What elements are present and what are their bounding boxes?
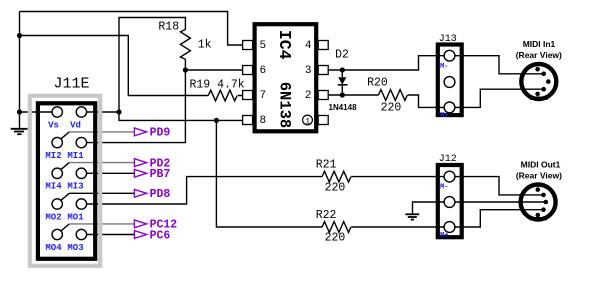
- wire: R18 bottom to IC pin 6: [185, 59, 243, 70]
- MIDI In1 DIN socket: [521, 64, 556, 99]
- wire: MO2 diagonal: [61, 193, 69, 200]
- svg-text:1: 1: [305, 116, 310, 126]
- resistor R18 1k vertical: [180, 30, 190, 60]
- svg-text:M-: M-: [440, 63, 448, 71]
- svg-text:M-: M-: [440, 184, 448, 192]
- svg-text:3: 3: [305, 65, 312, 77]
- svg-text:6N138: 6N138: [275, 82, 293, 129]
- svg-text:MO3: MO3: [67, 243, 83, 253]
- wire: Vs pin to ground rail: [20, 111, 53, 113]
- J12 pin circles: [444, 171, 455, 232]
- wire: MI2 diagonal: [61, 132, 69, 139]
- resistor R22 220: [322, 222, 351, 233]
- svg-text:MI4: MI4: [45, 182, 62, 192]
- wire: rail to R19 and IC pin 7: [20, 36, 244, 96]
- svg-text:MO2: MO2: [45, 212, 61, 222]
- wire: riser Vd up to R18 feed: [119, 18, 185, 113]
- wire: MO3 to PC6: [87, 234, 135, 236]
- wire: gray net PD2: [69, 162, 134, 164]
- svg-text:J12: J12: [439, 154, 457, 165]
- svg-text:PB7: PB7: [150, 168, 171, 181]
- wire: ground rail vertical left: [19, 12, 21, 129]
- wire: MO1 up to R21: [87, 177, 323, 204]
- svg-text:IC4: IC4: [275, 30, 294, 60]
- svg-text:R21: R21: [316, 159, 337, 172]
- svg-text:MO4: MO4: [45, 243, 62, 253]
- svg-text:220: 220: [325, 182, 346, 195]
- svg-text:(Rear View): (Rear View): [516, 50, 562, 60]
- junction: rail/Vs: [17, 109, 22, 114]
- wire: VCC top wire to IC pin 5: [20, 12, 244, 46]
- wire: gray net PD9: [69, 131, 134, 133]
- wire: R21 to J12 M-: [351, 176, 444, 178]
- net flag PD9: [134, 128, 146, 136]
- svg-text:R20: R20: [367, 77, 388, 90]
- wire: R22 to J12 M+: [351, 226, 444, 228]
- svg-text:MI1: MI1: [67, 151, 84, 161]
- connector J11E body: [38, 103, 95, 258]
- wire: Vd jog down to IC pin 8: [119, 112, 243, 120]
- svg-text:4: 4: [305, 40, 312, 52]
- svg-text:2: 2: [305, 90, 312, 102]
- wire: R22 feed from pin8 net: [216, 120, 322, 227]
- svg-text:220: 220: [325, 232, 346, 245]
- J11E pin circles: [52, 107, 87, 240]
- resistor R19 4.7k: [208, 90, 237, 101]
- IC4 pin stubs: [243, 41, 329, 125]
- svg-text:D2: D2: [335, 49, 349, 62]
- net flag PC12: [134, 220, 146, 228]
- wire: MI3 to PB7: [87, 172, 135, 174]
- svg-text:MI3: MI3: [67, 182, 83, 192]
- MIDI Out1 DIN socket: [521, 185, 556, 220]
- wire: MI4 diagonal: [61, 163, 69, 170]
- wire: Vd pin to riser: [87, 111, 119, 113]
- diode D2 1N4148: [341, 70, 343, 95]
- J13 pin circles: [444, 50, 455, 113]
- junction: pin6/R18/MI1: [183, 67, 188, 72]
- svg-text:R18: R18: [158, 20, 179, 33]
- svg-text:PD8: PD8: [150, 188, 171, 201]
- svg-text:MI2: MI2: [45, 151, 61, 161]
- svg-text:J13: J13: [439, 34, 457, 45]
- net flag PD8: [134, 189, 146, 197]
- svg-text:M+: M+: [440, 112, 448, 120]
- junction: pin8/R22: [214, 118, 219, 123]
- ground symbol at J12: [405, 214, 419, 219]
- wire: IC pin 3 to J13 M-: [328, 56, 444, 70]
- ground symbol left: [11, 129, 28, 134]
- net flag PC6: [134, 231, 146, 239]
- wire: J12 mid to ground: [413, 202, 445, 214]
- junction: Vd riser: [116, 109, 121, 114]
- svg-text:R22: R22: [316, 209, 337, 222]
- svg-text:PC6: PC6: [150, 229, 171, 242]
- junction: D2 bottom: [340, 92, 345, 97]
- wire: MO2 to PD8: [69, 192, 134, 194]
- wire: gray net PC12: [69, 223, 134, 225]
- resistor R20 220: [379, 90, 408, 101]
- svg-text:(Rear View): (Rear View): [516, 170, 562, 180]
- svg-text:6: 6: [260, 65, 267, 77]
- wire: J13 M- to MIDI In: [455, 56, 542, 74]
- svg-text:PD9: PD9: [150, 127, 171, 140]
- svg-text:7: 7: [260, 90, 267, 102]
- IC4 pin 1 circled: [303, 115, 313, 125]
- svg-text:5: 5: [260, 40, 267, 52]
- svg-text:MIDI Out1: MIDI Out1: [521, 160, 561, 170]
- svg-text:MIDI In1: MIDI In1: [523, 39, 556, 49]
- connector J13: [438, 45, 462, 116]
- svg-text:1k: 1k: [198, 39, 212, 52]
- connector J12: [438, 165, 462, 237]
- svg-text:220: 220: [381, 101, 402, 114]
- svg-text:R19 4.7k: R19 4.7k: [190, 78, 245, 91]
- svg-text:Vd: Vd: [70, 120, 81, 130]
- wire: J12 mid to MIDI Out: [455, 201, 544, 203]
- svg-text:M+: M+: [440, 232, 448, 240]
- svg-text:J11E: J11E: [54, 76, 90, 93]
- connector J11E outer gray outline: [30, 96, 100, 266]
- J11E pin names: [45, 120, 84, 253]
- IC4 6N138 body: [255, 24, 317, 131]
- svg-text:1N4148: 1N4148: [329, 103, 358, 112]
- resistor R21 220: [322, 171, 351, 182]
- svg-text:8: 8: [260, 115, 267, 127]
- net flag PB7: [134, 169, 146, 177]
- wire: R20 to J13 M+: [408, 95, 444, 107]
- wire: MO4 diagonal: [61, 224, 69, 231]
- wire: J12 M- to MIDI Out: [455, 177, 542, 195]
- net flag PD2: [134, 159, 146, 167]
- wire: R18/pin6 down to MI1: [87, 70, 186, 143]
- wire: IC pin 2 to R20: [328, 94, 378, 96]
- svg-text:MO1: MO1: [67, 212, 84, 222]
- wire: J12 M+ to MIDI Out: [455, 210, 542, 227]
- wire: J13 M+ to MIDI In: [455, 89, 542, 107]
- svg-text:Vs: Vs: [48, 120, 59, 130]
- junction: rail/R19 feed: [17, 33, 22, 38]
- junction: D2 top: [340, 67, 345, 72]
